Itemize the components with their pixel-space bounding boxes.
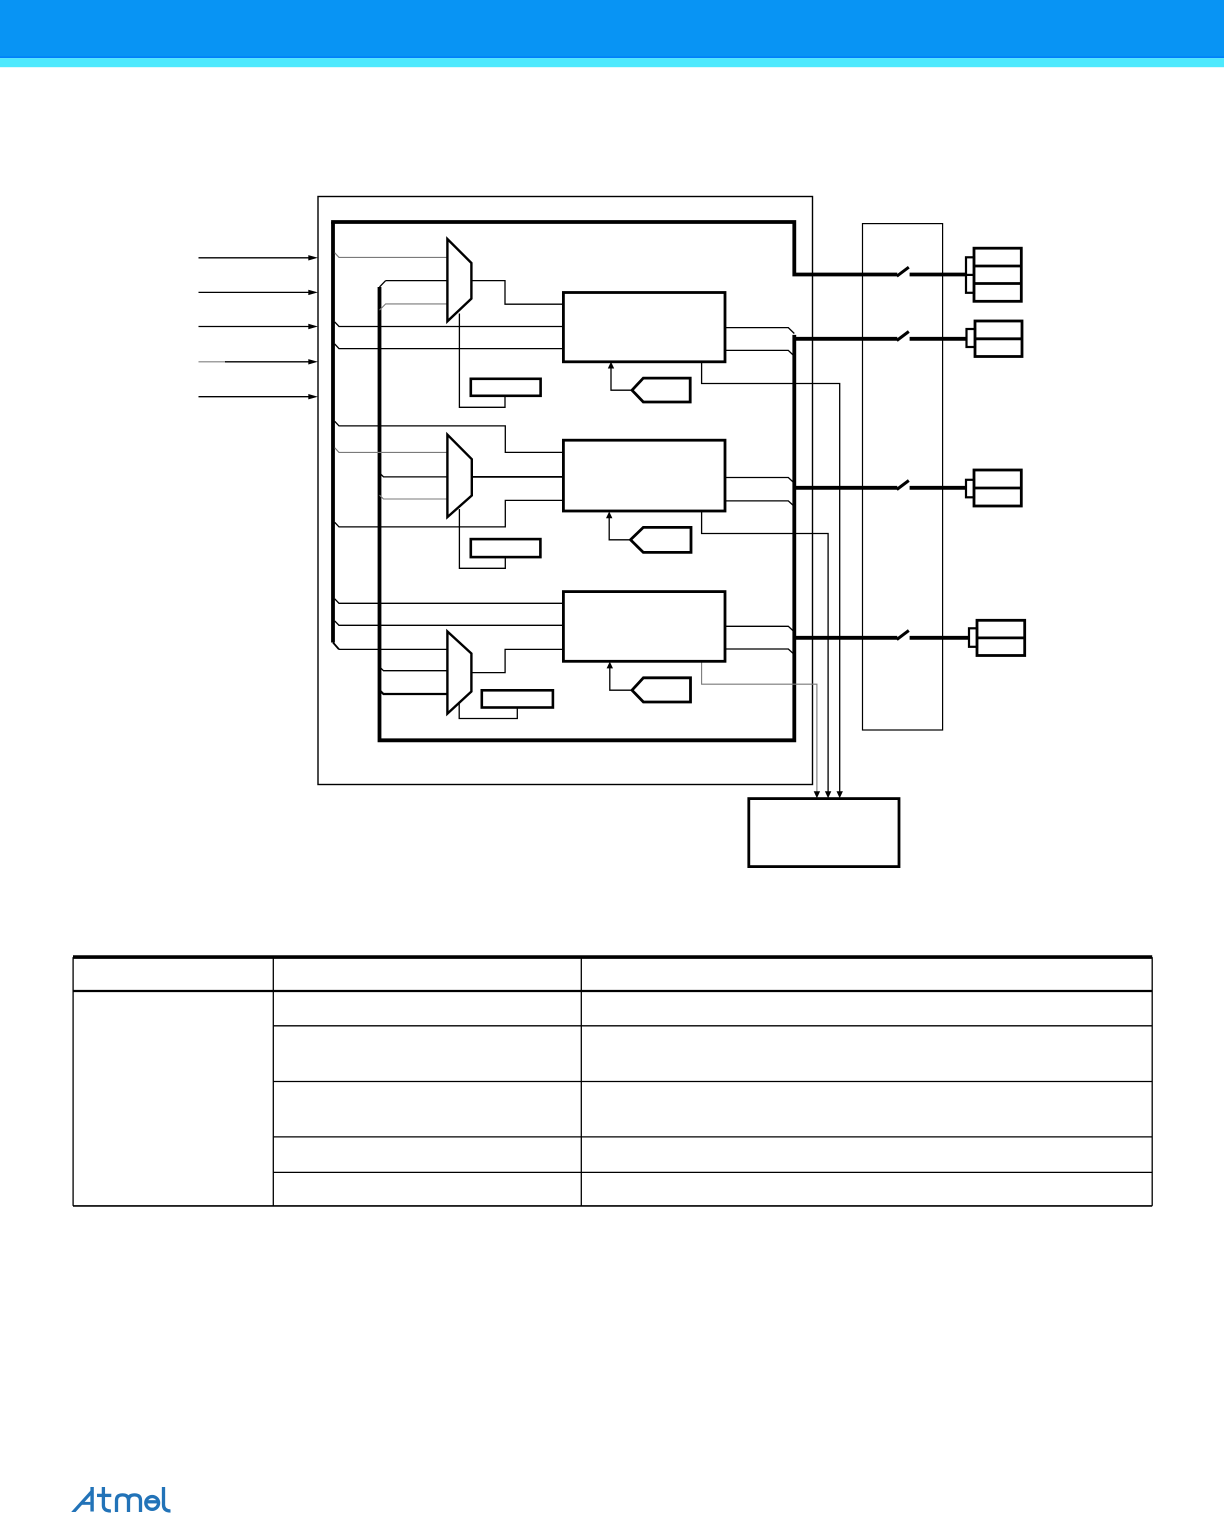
channel block TC0	[563, 293, 725, 362]
wire: ch1 through A right to bus	[725, 328, 794, 334]
wire: ch2 mux output	[472, 476, 564, 478]
wire: ch2 return loop	[335, 500, 564, 527]
wire: switch S3 to pad	[910, 486, 966, 490]
pad P4 double box	[977, 620, 1025, 655]
wire: switch S1 to pad	[910, 273, 966, 277]
switch S2	[897, 332, 909, 341]
Atmel logo	[71, 1487, 94, 1512]
table left edge	[72, 957, 74, 1206]
table header underline	[73, 990, 1152, 992]
wire: ch3 input a	[335, 599, 564, 604]
register reg2	[471, 539, 541, 557]
table row line 1	[273, 1025, 1152, 1027]
wire: ch3 mux input3 bold	[380, 690, 448, 694]
wire: ch1 through B right to bus	[725, 350, 794, 356]
table right edge	[1151, 957, 1153, 1206]
pad P2 pin	[967, 329, 976, 347]
pad P1 pin	[966, 257, 974, 293]
wire: ch2 mux input2	[380, 473, 448, 477]
table row line 3	[273, 1136, 1152, 1138]
mux U3 clock selector	[447, 632, 471, 714]
wire: TIMER_CLOCK3 input arrow	[199, 326, 310, 328]
table column line 1	[272, 957, 274, 1206]
thick branch row4	[794, 636, 897, 640]
wire: ch1 mux input1	[335, 253, 448, 258]
table bottom border	[73, 1205, 1152, 1207]
wire: ch1 interrupt line	[702, 362, 840, 792]
wire: ch2 mux select	[459, 509, 505, 568]
wire: ch3 input b	[335, 621, 564, 625]
sync tag T1	[632, 378, 690, 402]
inner thick top edge and TIOA0 route to switch	[331, 222, 897, 275]
wire: ch3 sync with up arrow	[610, 665, 632, 690]
inner thick left edge	[331, 222, 335, 643]
wire: switch S2 to pad	[910, 337, 967, 341]
pad P3 pin	[966, 480, 974, 498]
table row line 4	[273, 1171, 1152, 1173]
wire: ch3 mux input1	[339, 648, 447, 650]
wire: ch2 through B right to bus	[725, 501, 794, 507]
pad P1 triple box	[974, 248, 1021, 301]
table top border	[73, 955, 1152, 959]
wire: ch2 through A right to bus	[725, 478, 794, 484]
pad P2 double box	[975, 321, 1022, 357]
wire: ch2 mux input3	[380, 495, 448, 499]
wire: ch2 sync with up arrow	[609, 515, 630, 540]
wire: ch1 sync with up arrow	[611, 365, 632, 390]
wire chamfer bus top to mux1	[380, 281, 386, 287]
thick branch row3	[794, 486, 897, 490]
pad P4 pin	[969, 628, 977, 647]
switch S3	[897, 481, 909, 490]
channel block TC1	[563, 440, 725, 511]
pad P3 double box	[974, 470, 1021, 506]
table column line 2	[580, 957, 582, 1206]
wire: ch1 through B left	[335, 344, 564, 349]
header divider line	[0, 56, 1224, 58]
wire: TIMER_CLOCK4 input arrow	[199, 361, 227, 363]
wire: ch3 mux input2	[380, 667, 448, 671]
wire: ch1 through A left	[335, 322, 564, 327]
mux U1 clock selector	[447, 239, 471, 321]
wire: TIMER_CLOCK1 input arrow	[199, 257, 310, 259]
wire: ch1 mux select	[459, 314, 505, 408]
channel block TC2	[563, 592, 725, 662]
wire: ch1 mux input3	[380, 304, 448, 310]
switch S1	[897, 267, 909, 276]
wire: ch3 mux output	[471, 649, 563, 672]
wire: TIMER_CLOCK2 input arrow	[199, 291, 310, 293]
mux U2 clock selector	[447, 435, 471, 517]
wire: ch3 through A right to bus	[725, 626, 794, 632]
header blue banner	[0, 0, 1224, 58]
wire chamfer at left edge bottom	[333, 643, 339, 650]
sync tag T2	[631, 527, 692, 552]
outer block boundary box	[318, 197, 813, 785]
wire: ch2 interrupt line	[702, 511, 829, 792]
wire: ch3 mux select	[459, 703, 517, 719]
sync tag T3	[632, 678, 691, 702]
wire: switch S4 to pad	[910, 636, 969, 640]
wire: ch2 mux input1	[335, 448, 448, 453]
switch S4	[897, 631, 909, 640]
wire: ch1 mux output	[471, 281, 563, 305]
thick branch row2	[794, 337, 897, 341]
wire: ch3 through B right to bus	[725, 649, 794, 655]
register reg1	[471, 379, 541, 396]
register reg3	[482, 690, 553, 707]
table row line 2	[273, 1081, 1152, 1083]
wire: TIMER_CLOCK5 input arrow	[199, 396, 310, 398]
pads column box	[863, 224, 943, 730]
wire: ch2 input jog	[335, 421, 564, 452]
thick output bus	[380, 287, 795, 740]
interrupt controller block	[749, 799, 899, 867]
header cyan stripe	[0, 58, 1224, 67]
wire: ch3 interrupt line	[702, 661, 817, 792]
wire: ch1 mux input2	[386, 280, 448, 282]
